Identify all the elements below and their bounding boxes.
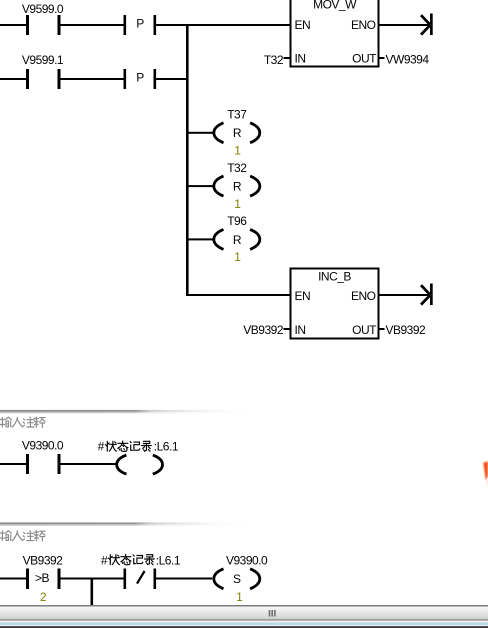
splitter grip <box>269 610 276 617</box>
orange annotation stroke <box>483 461 488 489</box>
comment text shu-ru-zhu-shi 2 <box>0 531 45 541</box>
wire rung2 to trunk <box>156 78 188 80</box>
svg-text:V9599.0: V9599.0 <box>22 2 64 16</box>
svg-text:#: # <box>101 553 108 567</box>
svg-text:V9390.0: V9390.0 <box>226 553 268 567</box>
svg-text:VW9394: VW9394 <box>386 53 430 67</box>
svg-text:INC_B: INC_B <box>318 270 351 284</box>
contact V9599.0 <box>22 2 64 35</box>
wire to INC_B EN <box>188 294 291 296</box>
pin stub OUT MOV_W <box>380 57 385 59</box>
svg-text:VB9392: VB9392 <box>243 323 284 337</box>
wire rung1 to box <box>156 24 290 26</box>
svg-text:VB9392: VB9392 <box>386 323 427 337</box>
wire branch down rung4 <box>91 579 94 605</box>
wire rung1 left <box>0 24 26 26</box>
svg-text:S: S <box>233 572 241 586</box>
svg-text:#: # <box>98 440 105 454</box>
box INC_B U2 <box>291 269 379 339</box>
label #zhuangtai-jilu:L6.1 rung4 <box>101 553 181 567</box>
wire rung1 mid <box>61 24 124 26</box>
wire ENO INC_B <box>380 294 431 296</box>
svg-text::L6.1: :L6.1 <box>156 553 181 567</box>
pin stub IN MOV_W <box>284 57 291 59</box>
svg-text:OUT: OUT <box>352 323 377 337</box>
box MOV_W U1 <box>291 0 379 67</box>
coil T37 reset <box>214 108 260 158</box>
svg-text:EN: EN <box>295 289 311 303</box>
wire rung3 to coil <box>61 463 118 465</box>
contact NC zhuangtai L6.1 <box>124 569 157 590</box>
operand VB9392 in <box>243 323 284 337</box>
svg-text:V9599.1: V9599.1 <box>22 53 64 67</box>
svg-text:ENO: ENO <box>351 18 376 32</box>
contact compare VB9392 >B 2 <box>23 554 64 605</box>
wire rung4 to S coil <box>156 578 212 580</box>
svg-text:T37: T37 <box>227 108 247 122</box>
wire branch to coil T32 <box>188 185 214 187</box>
contact P rung2 <box>124 69 157 89</box>
network separator 2 <box>0 522 270 525</box>
coil T96 reset <box>214 214 260 264</box>
arrow continuation INC_B <box>421 284 433 306</box>
operand VB9392 out <box>386 323 427 337</box>
svg-text:MOV_W: MOV_W <box>313 0 357 12</box>
wire branch to coil T37 <box>188 132 214 134</box>
wire rung2 mid <box>61 78 124 80</box>
svg-text:1: 1 <box>234 197 241 211</box>
wire rung2 left <box>0 78 26 80</box>
svg-text:V9390.0: V9390.0 <box>22 439 64 453</box>
wire ENO MOV_W <box>380 24 431 26</box>
svg-text:P: P <box>136 17 144 31</box>
svg-text:T96: T96 <box>227 214 247 228</box>
svg-text:IN: IN <box>295 52 306 66</box>
svg-text:OUT: OUT <box>352 52 377 66</box>
svg-text:ENO: ENO <box>351 289 376 303</box>
svg-text:2: 2 <box>40 590 47 604</box>
arrow continuation rung1 <box>421 14 433 36</box>
svg-text:T32: T32 <box>227 161 247 175</box>
pin stub IN INC_B <box>284 328 291 330</box>
svg-text:1: 1 <box>234 250 241 264</box>
svg-text::L6.1: :L6.1 <box>154 440 179 454</box>
svg-text:1: 1 <box>236 590 243 604</box>
wire branch to coil T96 <box>188 238 214 240</box>
contact P rung1 <box>124 15 157 35</box>
operand VW9394 <box>386 53 430 67</box>
comment text shu-ru-zhu-shi 1 <box>0 417 45 427</box>
operand T32 <box>264 53 284 67</box>
svg-text:VB9392: VB9392 <box>23 554 64 568</box>
svg-text:EN: EN <box>295 18 311 32</box>
coil T32 reset <box>214 161 260 211</box>
svg-text:>B: >B <box>35 571 50 585</box>
wire rung4 mid <box>61 578 124 580</box>
wire rung4 left <box>0 578 26 580</box>
wire trunk vertical <box>186 24 189 296</box>
svg-text:1: 1 <box>234 144 241 158</box>
svg-text:R: R <box>233 126 242 140</box>
svg-text:IN: IN <box>295 323 306 337</box>
wire rung3 left <box>0 463 26 465</box>
coil output zhuangtai L6.1 <box>117 455 163 474</box>
contact V9390.0 <box>22 439 64 475</box>
coil set V9390.0 S 1 <box>214 553 268 604</box>
splitter bar bottom <box>0 605 488 628</box>
svg-text:T32: T32 <box>264 53 284 67</box>
svg-text:R: R <box>233 180 242 194</box>
contact V9599.1 <box>22 53 64 89</box>
pin stub OUT INC_B <box>380 328 385 330</box>
network separator 1 <box>0 410 270 413</box>
svg-text:P: P <box>136 71 144 85</box>
svg-text:R: R <box>233 233 242 247</box>
label #zhuangtai-jilu:L6.1 rung3 <box>98 440 179 454</box>
